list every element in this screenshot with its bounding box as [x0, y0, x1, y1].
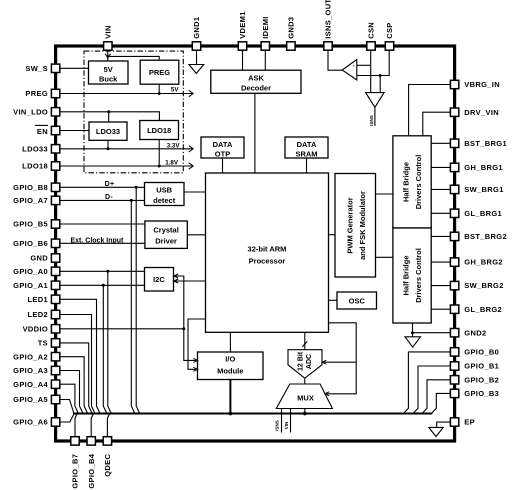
svg-text:I/O: I/O	[225, 354, 235, 363]
svg-text:GND1: GND1	[192, 17, 201, 39]
svg-text:GL_BRG2: GL_BRG2	[464, 305, 502, 314]
svg-text:VBRG_IN: VBRG_IN	[464, 80, 500, 89]
svg-text:GPIO_A2: GPIO_A2	[13, 352, 48, 361]
svg-text:GH_BRG1: GH_BRG1	[464, 163, 503, 172]
svg-text:Drivers Control: Drivers Control	[414, 248, 423, 303]
svg-text:GPIO_A0: GPIO_A0	[13, 267, 48, 276]
svg-text:GPIO_B0: GPIO_B0	[464, 348, 499, 357]
svg-text:VIN: VIN	[284, 421, 289, 429]
svg-text:I2C: I2C	[153, 275, 165, 284]
svg-text:EP: EP	[464, 418, 475, 427]
svg-text:GPIO_B4: GPIO_B4	[87, 453, 96, 488]
svg-text:Driver: Driver	[155, 237, 177, 246]
svg-text:ASK: ASK	[248, 74, 264, 83]
svg-text:GPIO_B5: GPIO_B5	[13, 220, 48, 229]
svg-text:Half Bridge: Half Bridge	[402, 255, 411, 295]
svg-text:+: +	[367, 95, 370, 100]
svg-text:VDEM1: VDEM1	[238, 11, 247, 39]
svg-text:GPIO_B3: GPIO_B3	[464, 389, 499, 398]
svg-text:SW_S: SW_S	[25, 64, 48, 73]
svg-text:LED2: LED2	[28, 310, 49, 319]
svg-text:Crystal: Crystal	[153, 226, 178, 235]
svg-text:IDEMI: IDEMI	[261, 16, 270, 38]
svg-text:32-bit ARM: 32-bit ARM	[248, 245, 287, 254]
svg-text:GND: GND	[30, 254, 48, 263]
svg-text:PWM Generator: PWM Generator	[346, 197, 355, 253]
svg-text:Module: Module	[217, 366, 243, 375]
svg-text:BST_BRG1: BST_BRG1	[464, 139, 507, 148]
svg-text:VIN_LDO: VIN_LDO	[13, 107, 48, 116]
svg-text:GND3: GND3	[287, 17, 296, 39]
svg-text:5V: 5V	[104, 65, 113, 74]
svg-text:1.8V: 1.8V	[165, 160, 179, 167]
svg-text:BST_BRG2: BST_BRG2	[464, 232, 507, 241]
svg-text:ISNS: ISNS	[275, 420, 280, 431]
svg-text:Buck: Buck	[99, 75, 118, 84]
svg-text:DRV_VIN: DRV_VIN	[464, 108, 499, 117]
svg-text:TS: TS	[38, 339, 48, 348]
svg-text:DATA: DATA	[213, 140, 233, 149]
svg-text:LDO33: LDO33	[96, 127, 120, 136]
svg-text:and FSK Modulator: and FSK Modulator	[358, 191, 367, 260]
svg-text:LDO18: LDO18	[22, 162, 48, 171]
svg-text:Ext. Clock Input: Ext. Clock Input	[71, 237, 125, 244]
svg-text:SW_BRG1: SW_BRG1	[464, 185, 503, 194]
svg-text:GPIO_A6: GPIO_A6	[13, 418, 48, 427]
svg-text:GPIO_B8: GPIO_B8	[13, 183, 48, 192]
svg-text:GPIO_A3: GPIO_A3	[13, 366, 48, 375]
svg-text:12 Bit: 12 Bit	[297, 351, 304, 371]
svg-text:CSP: CSP	[385, 22, 394, 38]
svg-text:GPIO_B2: GPIO_B2	[464, 375, 499, 384]
svg-text:VDDIO: VDDIO	[23, 324, 48, 333]
svg-text:5V: 5V	[171, 87, 179, 94]
svg-text:VIN: VIN	[104, 25, 113, 39]
svg-text:SRAM: SRAM	[295, 149, 317, 158]
svg-text:CSN: CSN	[367, 22, 376, 39]
svg-text:QDEC: QDEC	[103, 454, 112, 477]
svg-text:Half Bridge: Half Bridge	[402, 162, 411, 202]
svg-text:GPIO_A5: GPIO_A5	[13, 395, 48, 404]
svg-text:GPIO_B6: GPIO_B6	[13, 239, 48, 248]
svg-text:LED1: LED1	[28, 295, 49, 304]
svg-text:detect: detect	[153, 196, 176, 205]
svg-text:PREG: PREG	[149, 68, 170, 77]
svg-text:GPIO_A1: GPIO_A1	[13, 281, 48, 290]
svg-text:EN: EN	[37, 127, 48, 136]
svg-text:GPIO_A4: GPIO_A4	[13, 380, 48, 389]
svg-text:SW_BRG2: SW_BRG2	[464, 281, 503, 290]
svg-text:D-: D-	[105, 194, 113, 201]
svg-text:+: +	[353, 63, 356, 68]
svg-text:MUX: MUX	[297, 393, 314, 402]
svg-text:DATA: DATA	[297, 140, 317, 149]
svg-text:Decoder: Decoder	[241, 84, 271, 93]
svg-text:ADC: ADC	[306, 354, 313, 369]
svg-text:ISNS_OUT: ISNS_OUT	[324, 0, 333, 39]
svg-text:D+: D+	[105, 181, 115, 188]
svg-text:GPIO_B1: GPIO_B1	[464, 362, 499, 371]
svg-text:GND2: GND2	[464, 328, 486, 337]
svg-text:OTP: OTP	[215, 149, 230, 158]
svg-text:GPIO_A7: GPIO_A7	[13, 196, 48, 205]
svg-text:GPIO_B7: GPIO_B7	[71, 454, 80, 489]
svg-text:Processor: Processor	[249, 256, 286, 265]
svg-text:USB: USB	[156, 185, 172, 194]
svg-text:LDO18: LDO18	[147, 126, 171, 135]
svg-text:ISNS: ISNS	[369, 115, 374, 126]
svg-text:OSC: OSC	[349, 296, 366, 305]
svg-text:PREG: PREG	[25, 89, 48, 98]
svg-text:GH_BRG2: GH_BRG2	[464, 258, 503, 267]
svg-text:3.3V: 3.3V	[167, 142, 181, 149]
svg-text:GL_BRG1: GL_BRG1	[464, 209, 502, 218]
svg-text:Drivers Control: Drivers Control	[414, 155, 423, 210]
svg-text:LDO33: LDO33	[22, 144, 48, 153]
